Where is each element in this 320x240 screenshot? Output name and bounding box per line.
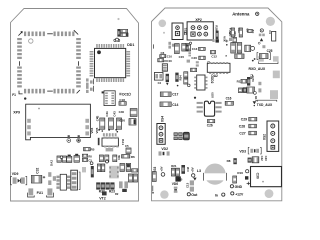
via	[188, 84, 191, 87]
capacitor C52	[121, 33, 128, 36]
resistor R18	[247, 87, 255, 93]
module XP9 left pads	[27, 119, 31, 136]
mounting hole bottom right	[265, 189, 274, 198]
polarity triangle VT1	[260, 38, 263, 41]
capacitor C35	[233, 37, 236, 42]
test point square	[77, 139, 81, 143]
svg-text:C23: C23	[264, 156, 268, 162]
resistor network R27 row1	[174, 132, 183, 135]
capacitor C29	[249, 117, 257, 121]
svg-text:C13: C13	[186, 182, 190, 188]
svg-text:C46: C46	[191, 56, 197, 60]
capacitor C48	[133, 174, 137, 182]
capacitor C12	[211, 50, 216, 53]
svg-text:C43: C43	[113, 111, 117, 117]
inductor L3 toroid	[203, 164, 228, 185]
capacitor C53	[126, 163, 130, 171]
svg-text:C22: C22	[260, 156, 264, 162]
capacitor C11	[175, 44, 180, 54]
dots under caps	[96, 117, 117, 131]
capacitor C5	[126, 148, 131, 153]
svg-text:C15: C15	[179, 55, 185, 59]
connector XS4 body	[157, 124, 165, 145]
IC DD1 pads bottom	[96, 78, 124, 82]
test point R18	[254, 92, 257, 95]
svg-text:C13: C13	[192, 47, 198, 51]
resistor R13 vertical	[247, 77, 250, 86]
capacitor C38	[191, 68, 197, 71]
capacitor C34	[237, 43, 242, 53]
edge tick top	[153, 44, 155, 48]
mounting hole top right	[266, 17, 275, 26]
pad C35	[229, 38, 232, 41]
capacitor C13b pads	[190, 180, 194, 191]
resistor R5	[84, 147, 91, 150]
svg-text:L3: L3	[197, 169, 201, 173]
capacitor C49	[97, 164, 100, 172]
QFP footprint F1 pads bottom row	[24, 89, 74, 94]
test point Out	[187, 193, 198, 198]
vias	[208, 61, 210, 66]
svg-text:C29: C29	[241, 118, 247, 122]
capacitor C16	[225, 101, 233, 105]
IC DA1 body	[98, 138, 119, 146]
svg-text:VD2: VD2	[161, 147, 168, 151]
svg-text:R5: R5	[91, 148, 95, 152]
transistor Q4	[86, 86, 93, 93]
svg-text:+5V: +5V	[191, 167, 195, 172]
IC DD1 pads left	[90, 51, 94, 77]
mounting hole top left	[159, 20, 167, 28]
svg-text:C4: C4	[158, 81, 162, 85]
svg-text:R21: R21	[171, 164, 177, 168]
IC DD2 body	[197, 75, 205, 90]
connector XS4 pins	[159, 126, 163, 142]
pad dark R16	[245, 176, 248, 179]
test point VT1	[260, 29, 263, 32]
IC DD1 pin-1 dot	[97, 50, 101, 54]
capacitor C30 body	[251, 167, 282, 187]
pad small	[262, 45, 265, 48]
pad TXD mid	[270, 90, 278, 99]
resistor R12	[241, 79, 247, 83]
capacitor C44	[99, 155, 103, 162]
resistor R28	[187, 43, 191, 51]
resistor R29	[248, 29, 253, 32]
svg-text:VD9: VD9	[12, 172, 19, 176]
QFP footprint F1 pads top row	[24, 32, 74, 37]
capacitor C26	[208, 120, 215, 123]
vias above DD1	[114, 39, 120, 41]
svg-text:C20: C20	[120, 119, 126, 123]
transistor Q3	[86, 78, 93, 85]
connector XP1 body	[172, 23, 183, 40]
svg-text:Out: Out	[191, 193, 198, 197]
polarity triangle	[253, 101, 257, 104]
IC DD3 inner pads	[105, 92, 114, 104]
footprint pads row	[103, 133, 117, 136]
svg-text:+5V: +5V	[159, 166, 163, 171]
transistor VT1 pads	[259, 34, 265, 37]
test point TP3	[90, 162, 93, 165]
svg-text:C4b: C4b	[117, 155, 121, 160]
svg-text:C5: C5	[125, 144, 129, 148]
capacitor C45b	[239, 88, 243, 93]
svg-text:VD6: VD6	[172, 182, 178, 186]
via pad	[189, 42, 191, 44]
svg-text:F1: F1	[12, 93, 16, 97]
crystal ZQ1	[71, 170, 80, 190]
svg-text:C40: C40	[119, 110, 125, 114]
svg-text:GND: GND	[235, 185, 243, 189]
svg-text:XP9: XP9	[13, 111, 20, 115]
capacitor C25	[257, 53, 270, 60]
IC DA2 body	[207, 63, 230, 72]
svg-text:C30: C30	[255, 173, 259, 179]
resistor R10 vertical	[91, 166, 94, 177]
test point +5V a	[161, 173, 165, 177]
IC DA1 thermal pad	[106, 148, 114, 151]
diode VD9	[11, 176, 27, 184]
test point R16	[246, 170, 249, 173]
svg-text:TXD_AUX: TXD_AUX	[257, 103, 273, 107]
capacitor C19	[233, 176, 237, 183]
dot RXD	[254, 58, 256, 60]
resistor R26	[216, 31, 219, 39]
capacitor C56	[67, 155, 72, 163]
resistor R14	[248, 158, 252, 163]
svg-text:RXD_AUX: RXD_AUX	[249, 67, 266, 71]
label DC1	[119, 92, 131, 96]
resistor R34	[175, 73, 178, 82]
plus mark	[247, 182, 250, 185]
RXD bracket	[259, 62, 278, 64]
svg-text:VD4: VD4	[90, 127, 94, 133]
svg-text:FU1: FU1	[37, 191, 44, 195]
svg-text:C28: C28	[239, 125, 245, 129]
resistor R25	[181, 165, 185, 174]
resistor R20	[102, 191, 107, 195]
test point +12V	[231, 192, 244, 197]
svg-text:+VT3: +VT3	[251, 75, 255, 82]
diode VD2	[159, 151, 170, 155]
diode VD3	[248, 147, 261, 154]
pads small	[188, 52, 191, 56]
capacitor C40	[130, 109, 137, 117]
pad mid	[273, 71, 280, 79]
transistor DA2 pads	[48, 172, 56, 185]
part small	[187, 60, 190, 63]
svg-text:DD2: DD2	[210, 77, 214, 84]
mounting hole bottom left	[160, 190, 168, 198]
fiducial dot	[117, 18, 119, 20]
capacitor C46	[199, 56, 205, 59]
IC DA1 top pads	[104, 137, 119, 138]
svg-text:C3: C3	[88, 159, 92, 163]
capacitor C50	[101, 164, 104, 172]
crystal XS0 pads	[197, 102, 222, 113]
test point TP5	[60, 156, 63, 159]
QFP footprint F1 pads right column	[76, 38, 81, 87]
capacitor C9	[231, 28, 234, 37]
IC DD1 body	[95, 48, 126, 77]
svg-text:DA2: DA2	[50, 160, 54, 166]
capacitor C43	[117, 118, 122, 129]
connector XP1 pins	[175, 26, 179, 36]
resistor R53	[121, 29, 128, 32]
TXD bracket	[257, 100, 277, 102]
connector XP2 pins	[191, 26, 208, 37]
via a	[258, 42, 260, 44]
svg-text:C14: C14	[172, 103, 178, 107]
svg-text:+12V: +12V	[235, 192, 244, 196]
antenna test point	[256, 12, 259, 15]
svg-text:DC1: DC1	[122, 92, 129, 96]
resistor R8	[233, 158, 236, 164]
test point In	[215, 193, 225, 197]
capacitor C6	[160, 55, 166, 58]
crystal XS0 body	[204, 101, 214, 116]
svg-text:R26: R26	[215, 25, 219, 31]
right board outline	[152, 8, 282, 201]
connector XS2 body	[267, 121, 279, 151]
resistor R52 vertical	[117, 29, 120, 37]
svg-text:DD1: DD1	[127, 43, 134, 47]
resistor R21	[171, 168, 175, 176]
dot R34	[177, 85, 179, 87]
IC DD1 pads right	[126, 51, 130, 77]
pads pair XT1	[119, 181, 128, 192]
svg-text:VD5: VD5	[95, 127, 99, 133]
resistor R7	[132, 169, 138, 172]
QFP footprint F1 pads left column	[17, 38, 22, 87]
svg-text:C10: C10	[167, 54, 173, 58]
IC DD1 pads top	[96, 44, 124, 48]
svg-text:C27: C27	[239, 132, 245, 136]
svg-text:VD3: VD3	[239, 150, 246, 154]
svg-text:C16: C16	[226, 96, 232, 100]
svg-text:C1: C1	[268, 30, 272, 34]
capacitor C45	[105, 155, 109, 162]
test point above DD1	[116, 38, 119, 41]
resistor R4	[122, 155, 130, 158]
capacitor C13	[199, 47, 206, 50]
IC footprint area	[109, 166, 118, 179]
svg-text:DC10: DC10	[164, 59, 172, 63]
capacitor C47	[128, 174, 132, 182]
svg-text:XS4: XS4	[160, 116, 164, 122]
small dot	[163, 32, 165, 34]
capacitor C42	[109, 118, 114, 129]
dot	[194, 97, 196, 99]
pad RXD 2	[273, 56, 279, 61]
svg-text:In: In	[215, 193, 218, 197]
resistor R35 vertical	[186, 45, 189, 52]
svg-text:C32: C32	[36, 168, 40, 174]
pads right edge	[258, 82, 261, 93]
capacitor C17	[160, 92, 171, 96]
capacitor C28	[249, 124, 257, 128]
QFP F1 pin-1 circle	[29, 39, 33, 43]
QFP F1 corner marks	[18, 30, 80, 94]
left board outline	[11, 9, 139, 202]
capacitor C7	[245, 45, 255, 51]
svg-text:C45: C45	[178, 177, 183, 181]
capacitor C14	[160, 102, 171, 107]
capacitor C32	[31, 175, 45, 183]
module XP9 right pads	[85, 119, 89, 136]
IC footprint U2	[56, 174, 70, 190]
svg-text:C48: C48	[186, 166, 190, 171]
resistor R8a	[82, 154, 87, 157]
capacitor C27	[249, 131, 257, 135]
bowtie mark	[184, 31, 187, 35]
capacitor C37	[184, 78, 188, 84]
test point TP4	[106, 159, 109, 163]
capacitor C22	[252, 157, 259, 163]
svg-text:R34: R34	[178, 75, 182, 81]
capacitor C51	[120, 163, 124, 171]
capacitor C20	[129, 119, 136, 125]
resistor R8b	[82, 158, 87, 161]
capacitor C10r	[239, 28, 242, 37]
capacitor C36	[184, 72, 188, 78]
svg-text:C26: C26	[207, 124, 213, 128]
svg-text:VT2: VT2	[99, 197, 106, 201]
diode VD6	[174, 187, 178, 193]
capacitor C57	[74, 154, 79, 162]
svg-text:R6: R6	[131, 155, 135, 159]
connector XS2 pins	[271, 124, 275, 149]
IC T4 body	[154, 73, 163, 81]
svg-text:XS0: XS0	[210, 92, 214, 98]
capacitor C10	[158, 59, 164, 62]
svg-text:R8: R8	[227, 159, 231, 163]
fuse FU1 pads	[28, 188, 52, 195]
svg-text:Antenna: Antenna	[232, 12, 250, 17]
IC DD2 pads	[194, 77, 207, 89]
inductor L1 body	[272, 31, 276, 41]
edge part bottom	[152, 186, 154, 194]
IC DD3 pin1 square	[102, 91, 104, 93]
tick marks	[68, 135, 80, 137]
svg-text:C12: C12	[211, 55, 217, 59]
capacitor C46a	[113, 155, 117, 162]
C30 dot	[262, 181, 264, 183]
svg-text:C41: C41	[105, 111, 109, 117]
module XP9 dot	[38, 108, 40, 110]
fuse FU1 bracket	[28, 193, 54, 197]
resistor R24	[176, 168, 180, 176]
plus mark small	[225, 40, 228, 46]
IC DD3 body	[104, 91, 115, 106]
capacitor C18	[119, 102, 126, 106]
svg-text:R2: R2	[115, 192, 119, 196]
svg-text:C2: C2	[251, 29, 255, 33]
pad strip	[82, 167, 86, 172]
pad RXD 1	[258, 56, 264, 61]
capacitor C33	[231, 43, 236, 53]
dot mark	[24, 97, 26, 99]
resistor R33	[152, 172, 156, 182]
svg-text:XS2: XS2	[262, 134, 266, 140]
capacitor C41	[100, 118, 105, 129]
capacitor C55	[62, 156, 66, 162]
test point circle	[67, 139, 71, 143]
diode VD8	[166, 74, 169, 86]
QFP F1 silkscreen dashes	[20, 34, 79, 91]
capacitor C8	[235, 54, 244, 58]
connector XP2 body	[187, 22, 213, 40]
svg-text:R8: R8	[88, 154, 92, 158]
pad dark R26	[212, 39, 219, 42]
polarity triangle 2	[193, 178, 196, 181]
inductor L2 dark	[175, 176, 180, 181]
capacitor C13a	[182, 43, 186, 51]
test point +5V b	[192, 174, 195, 177]
IC DA1 bottom pads	[104, 146, 119, 147]
IC DA2 pads	[209, 62, 228, 74]
pad dark square	[243, 87, 247, 92]
capacitor C54	[57, 156, 61, 162]
resistor network R27 row2	[174, 137, 183, 140]
svg-text:R16: R16	[237, 171, 243, 175]
IC DA3	[183, 132, 189, 140]
resistor R22 network	[96, 182, 114, 189]
dot under triangle	[254, 105, 255, 106]
inductor L4	[162, 64, 167, 71]
test point GND	[230, 185, 242, 190]
pads pair	[196, 61, 199, 66]
svg-text:C17: C17	[172, 93, 178, 97]
module XP9 body	[26, 104, 91, 140]
transistor Q5	[168, 42, 174, 49]
dot below	[252, 60, 254, 62]
